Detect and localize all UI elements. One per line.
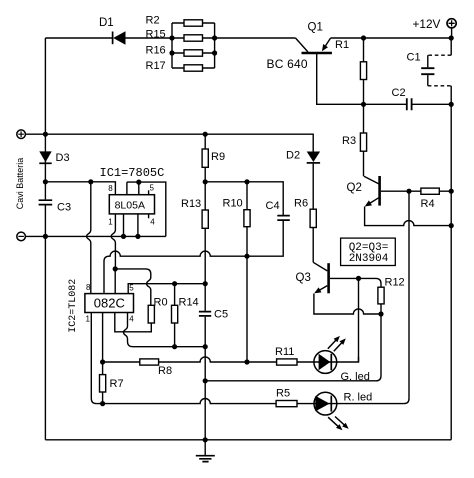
- wire Q3 emitter to R12 bottom with hop: [314, 294, 381, 315]
- wire right rail upper: [450, 38, 452, 55]
- resistor R14: [172, 284, 199, 347]
- svg-text:R14: R14: [179, 297, 199, 309]
- transistor Q3: [296, 262, 329, 293]
- resistor R6: [294, 164, 316, 263]
- wire 082C pin x91 to R.led wire: [91, 313, 96, 404]
- svg-text:G. led: G. led: [341, 371, 370, 383]
- node R7 bottom dot: [100, 401, 105, 406]
- svg-text:R12: R12: [385, 277, 405, 289]
- node R14 bottom dot: [172, 344, 177, 349]
- wire IC1 top pins net: [127, 182, 166, 236]
- node Q3 base / G.led dot: [356, 276, 361, 281]
- node R12 bottom dot: [378, 311, 383, 316]
- svg-text:C3: C3: [57, 202, 71, 214]
- svg-text:R7: R7: [110, 378, 124, 390]
- capacitor C3: [39, 200, 71, 213]
- svg-text:082C: 082C: [94, 295, 125, 310]
- svg-text:Q2: Q2: [347, 182, 362, 194]
- wire y181 to R10 and C4: [205, 182, 283, 215]
- wire IC1 pin1 down with jog over minus rail: [111, 214, 115, 269]
- wire pin1 net to R0 top with jog: [115, 269, 151, 305]
- svg-text:5: 5: [129, 284, 134, 293]
- resistor R7: [100, 375, 124, 392]
- wire right rail main: [450, 86, 452, 440]
- wire 082C pin x104 up and right rounded corner: [104, 221, 283, 294]
- node R4 right rail dot: [449, 189, 454, 194]
- node R10 top dot: [244, 179, 249, 184]
- svg-text:8: 8: [86, 283, 91, 292]
- diode D2: [286, 150, 320, 163]
- svg-text:R2: R2: [146, 15, 160, 27]
- svg-text:R9: R9: [211, 151, 225, 163]
- led G.led: [314, 336, 370, 383]
- wire R12 bottom down and left to gnd column: [205, 314, 381, 381]
- diode D3: [39, 151, 69, 164]
- terminal plus battery: [17, 130, 26, 139]
- wire IC1 pin4 stub: [148, 214, 150, 218]
- node D3 bottom dot: [43, 179, 48, 184]
- svg-text:R0: R0: [154, 297, 168, 309]
- resistor R12: [378, 277, 405, 304]
- node plus-left dot: [43, 132, 48, 137]
- svg-text:8L05A: 8L05A: [115, 199, 145, 211]
- node R10 bottom dot: [244, 254, 249, 259]
- node wire-91 top dot: [88, 179, 93, 184]
- resistor R8: [140, 359, 172, 377]
- resistor R9: [202, 134, 225, 311]
- resistor R11: [275, 346, 297, 365]
- svg-text:C5: C5: [214, 309, 228, 321]
- diode D1: [99, 17, 126, 45]
- node +12V rail dot: [449, 35, 454, 40]
- wire IC1 pin5 stub: [148, 190, 150, 194]
- svg-text:C1: C1: [407, 52, 421, 64]
- svg-text:R3: R3: [342, 135, 356, 147]
- wire left vertical rail upper: [44, 38, 46, 199]
- wire 082C pin4 S-jog to R14 C5 bottom net: [124, 313, 206, 347]
- wire top rail from D1 to resistor bank: [125, 37, 172, 39]
- transistor Q1: [267, 22, 332, 72]
- power +12V terminal: [413, 17, 457, 38]
- node R14 top dot: [172, 281, 177, 286]
- node C2 right rail dot: [449, 102, 454, 107]
- svg-text:D3: D3: [56, 152, 70, 164]
- wire Q1 base to C2 node: [317, 53, 406, 104]
- node pin1 net dot: [113, 266, 118, 271]
- node R13 bottom / C5 top dot: [203, 281, 208, 286]
- wire top rail left segment: [45, 37, 112, 39]
- wire Q2 base to R4 and right rail: [381, 190, 451, 192]
- svg-text:IC2=TL082: IC2=TL082: [68, 279, 79, 333]
- wire G.led row with hop: [103, 357, 359, 362]
- svg-text:R11: R11: [275, 346, 294, 358]
- svg-text:5: 5: [150, 184, 155, 193]
- wire top rail from Q1 to +12V: [331, 37, 452, 39]
- ground symbol: [196, 440, 215, 462]
- svg-text:R15: R15: [146, 29, 166, 41]
- wire Q3 base to R12: [330, 278, 381, 314]
- node R10 net / R11 dot: [244, 359, 249, 364]
- svg-text:Cavi Batteria: Cavi Batteria: [15, 158, 25, 210]
- node IC1 top net dot: [136, 180, 141, 185]
- resistor R10: [223, 182, 251, 362]
- svg-text:D2: D2: [286, 150, 300, 162]
- opamp IC2 TL082 082C: [68, 279, 134, 333]
- svg-text:BC 640: BC 640: [267, 57, 308, 71]
- wire Q2 emitter to right rail with hop: [365, 207, 452, 226]
- resistor R1: [335, 38, 367, 104]
- capacitor C5: [199, 309, 228, 321]
- svg-text:R17: R17: [146, 60, 166, 72]
- resistor R4: [421, 188, 440, 210]
- wire plus rail: [26, 134, 314, 151]
- svg-text:Q1: Q1: [308, 22, 323, 34]
- transistor Q2: [347, 176, 380, 207]
- svg-text:C4: C4: [266, 200, 280, 212]
- node bank-right dots: [212, 35, 217, 55]
- resistor R5: [276, 388, 297, 407]
- wire 082C pin x115: [114, 269, 116, 294]
- wire 082C pin5 stub to R14 C5 net: [128, 284, 205, 294]
- resistor R3: [342, 104, 367, 176]
- node Q2 base dot: [406, 189, 411, 194]
- node R1 top dot: [361, 35, 366, 40]
- wire pin8 net: D3 node to IC1 pin 8: [45, 182, 115, 195]
- svg-text:2N3904: 2N3904: [349, 253, 389, 265]
- wire bottom ground rail: [45, 439, 451, 441]
- node C5 bottom dot: [203, 344, 208, 349]
- svg-text:R4: R4: [421, 198, 435, 210]
- svg-text:D1: D1: [99, 17, 114, 29]
- wire top rail from bank to Q1: [215, 37, 296, 39]
- wire IC1 bottom pins to minus rail: [124, 214, 138, 237]
- resistor bank R2 R15 R16 R17: [146, 15, 215, 73]
- svg-text:R13: R13: [181, 198, 201, 210]
- capacitor C4: [266, 200, 290, 220]
- terminal minus battery: [17, 232, 26, 241]
- wire 082C pin x102 through R7: [102, 313, 104, 404]
- svg-text:Q3: Q3: [296, 272, 311, 284]
- node R9 top dot: [203, 132, 208, 137]
- node minus-left dot: [43, 234, 48, 239]
- wire gnd column lower: [204, 317, 206, 440]
- label box Q2=Q3=2N3904: [341, 238, 396, 265]
- resistor R13: [181, 198, 208, 228]
- svg-text:C2: C2: [392, 87, 406, 99]
- node gnd column y380 dot: [203, 378, 208, 383]
- node Q2 emitter rail dot: [449, 223, 454, 228]
- svg-text:4: 4: [150, 218, 155, 227]
- svg-text:R. led: R. led: [344, 392, 373, 404]
- capacitor C2: [392, 87, 452, 110]
- svg-text:+12V: +12V: [413, 17, 441, 31]
- svg-text:R8: R8: [158, 365, 172, 377]
- wire left vertical rail lower: [44, 205, 46, 439]
- svg-text:1: 1: [86, 315, 91, 324]
- wire G.led anode vertical: [358, 278, 360, 362]
- capacitor C1 with dashed links: [407, 52, 452, 86]
- svg-text:R5: R5: [276, 388, 290, 400]
- svg-text:R1: R1: [335, 39, 349, 51]
- svg-text:1: 1: [108, 218, 113, 227]
- regulator IC1 8L05A: [100, 166, 165, 227]
- led R.led: [314, 392, 372, 431]
- wire Q2 base node down to R.led: [404, 191, 409, 403]
- wire x91 vertical with jog over minus rail: [87, 182, 91, 294]
- node IC1 gnd pin dots: [121, 234, 141, 239]
- wire R0 bottom to 082C pin x114.8: [115, 313, 152, 332]
- wire minus rail: [26, 235, 166, 237]
- svg-text:IC1=7805C: IC1=7805C: [100, 166, 165, 180]
- node R9 bottom dot: [203, 179, 208, 184]
- svg-text:R6: R6: [294, 198, 308, 210]
- svg-text:8: 8: [108, 184, 113, 193]
- wire R.led row with hop: [96, 399, 404, 404]
- node Q1 base / R1 / C2 dot: [361, 102, 366, 107]
- svg-text:4: 4: [129, 315, 134, 324]
- svg-text:R10: R10: [223, 198, 243, 210]
- node R8 left dot: [100, 359, 105, 364]
- node ground rail dot: [203, 437, 208, 442]
- resistor R0: [148, 297, 167, 324]
- node bank-left dots: [169, 35, 174, 55]
- svg-text:R16: R16: [146, 45, 166, 57]
